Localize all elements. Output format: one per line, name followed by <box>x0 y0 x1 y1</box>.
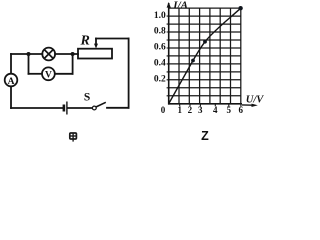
svg-text:0.4: 0.4 <box>154 59 166 69</box>
svg-text:0.6: 0.6 <box>154 43 166 53</box>
svg-text:U/V: U/V <box>246 95 264 106</box>
svg-text:1.0: 1.0 <box>154 11 166 21</box>
svg-text:0.8: 0.8 <box>154 27 166 37</box>
svg-text:A: A <box>8 77 15 87</box>
svg-text:4: 4 <box>213 105 218 115</box>
svg-text:3: 3 <box>198 105 203 115</box>
svg-text:1: 1 <box>177 105 182 115</box>
svg-text:Z: Z <box>201 129 209 143</box>
svg-text:I/A: I/A <box>172 0 188 11</box>
svg-text:5: 5 <box>226 105 231 115</box>
svg-text:S: S <box>84 91 90 103</box>
svg-text:R: R <box>80 34 90 49</box>
svg-text:0: 0 <box>161 105 166 115</box>
svg-text:2: 2 <box>188 105 193 115</box>
svg-text:0.2: 0.2 <box>154 74 166 84</box>
svg-text:6: 6 <box>239 105 244 115</box>
svg-text:V: V <box>45 71 52 81</box>
